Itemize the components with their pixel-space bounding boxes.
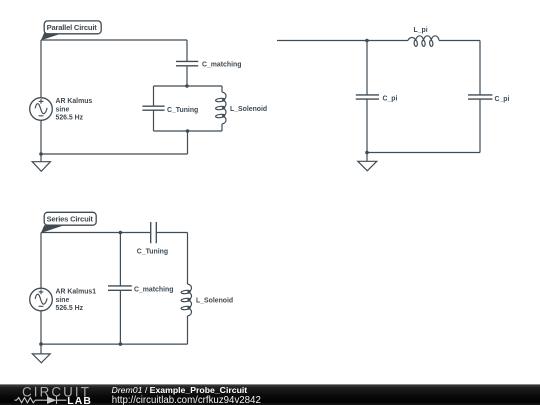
svg-text:L_pi: L_pi xyxy=(414,27,428,34)
svg-text:sine: sine xyxy=(56,297,70,304)
svg-text:AR Kalmus: AR Kalmus xyxy=(56,98,93,105)
svg-text:AR Kalmus1: AR Kalmus1 xyxy=(56,288,97,295)
svg-text:C_pi: C_pi xyxy=(383,96,398,103)
svg-text:526.5 Hz: 526.5 Hz xyxy=(56,305,84,312)
svg-text:C_Tuning: C_Tuning xyxy=(137,248,168,255)
svg-text:Parallel Circuit: Parallel Circuit xyxy=(47,23,98,32)
svg-text:C_Tuning: C_Tuning xyxy=(167,107,198,114)
svg-text:526.5 Hz: 526.5 Hz xyxy=(56,115,84,122)
svg-text:Drem01 / Example_Probe_Circuit: Drem01 / Example_Probe_Circuit xyxy=(112,385,248,395)
svg-text:sine: sine xyxy=(56,107,70,114)
svg-text:L_Solenoid: L_Solenoid xyxy=(196,298,233,305)
svg-text:C_matching: C_matching xyxy=(202,61,241,68)
svg-text:L_Solenoid: L_Solenoid xyxy=(230,106,267,113)
svg-text:http://circuitlab.com/crfkuz94: http://circuitlab.com/crfkuz94v2842 xyxy=(112,395,261,405)
svg-text:LAB: LAB xyxy=(67,396,92,405)
svg-text:C_matching: C_matching xyxy=(134,287,173,294)
svg-text:C_pi: C_pi xyxy=(495,96,510,103)
svg-text:Series Circuit: Series Circuit xyxy=(47,215,94,224)
